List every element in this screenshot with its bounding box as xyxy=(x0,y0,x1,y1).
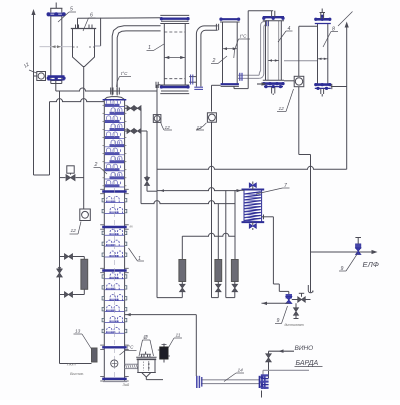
link y10.7 to E4 xyxy=(248,10,273,12)
flange on vapor pipe at line y91 xyxy=(110,88,112,95)
instrument box 12 on riser xyxy=(153,115,161,123)
heat exchanger 1 top header xyxy=(160,14,189,16)
svg-text:Зий: Зий xyxy=(123,382,131,387)
vino line xyxy=(269,350,295,352)
heat exchanger 8 top flange xyxy=(315,18,331,21)
black unit 11 xyxy=(163,344,165,348)
branch down to vessel 6 xyxy=(77,18,79,28)
distillate valve blue xyxy=(286,294,292,299)
separator vessel 6 body xyxy=(73,29,95,67)
vapor line corner x100.6 xyxy=(100,18,102,46)
column section flanges xyxy=(102,190,127,192)
column centerline xyxy=(113,100,115,378)
svg-text:13: 13 xyxy=(75,329,81,335)
control valve with positioner (left) xyxy=(60,177,66,179)
cooling water riser x59.5 xyxy=(59,91,61,364)
left line valve xyxy=(57,269,63,273)
heat exchanger 2 top plate xyxy=(220,18,240,20)
lower small valve xyxy=(295,303,297,307)
pump 12 (below vessel 6) xyxy=(80,209,91,221)
vino valve xyxy=(266,354,272,358)
E8 top stub xyxy=(320,13,322,20)
pump 12 (below exch 2) xyxy=(207,113,216,122)
E2 bottom-left drain xyxy=(212,84,221,86)
svg-text:БАРДА: БАРДА xyxy=(296,360,319,367)
svg-text:t°С: t°С xyxy=(127,345,134,350)
rotameter R2 xyxy=(215,260,222,282)
left rotameter branch bottom xyxy=(83,289,85,294)
column vapor pipe xyxy=(112,26,160,96)
E2 right outlet pipe xyxy=(237,74,259,76)
svg-text:дистиллят: дистиллят xyxy=(285,323,304,327)
wine pipe xyxy=(201,379,260,381)
E1 bottom-right stub xyxy=(189,76,196,78)
arrow into E4 bottom xyxy=(257,83,265,85)
pot vessel 10 xyxy=(136,356,156,358)
line y190 xyxy=(157,188,240,191)
left rotameter branch top xyxy=(60,256,85,258)
E2 bottom-right link xyxy=(233,86,235,88)
distillate right branch xyxy=(292,299,311,301)
wire U-turn bottom xyxy=(34,174,50,176)
pipe E1 to E2 (S-pipe) xyxy=(196,26,217,87)
distillate left arrow line xyxy=(262,302,289,304)
wine feed line from column xyxy=(125,314,197,316)
coil bottom valve xyxy=(252,222,254,225)
svg-text:2: 2 xyxy=(212,58,216,64)
instrument box 12 (left) xyxy=(34,75,38,77)
vapor line to E1 top-left xyxy=(78,17,161,19)
svg-text:ЕЛФ: ЕЛФ xyxy=(363,260,379,269)
condenser E5 centerline xyxy=(40,46,73,48)
line to condenser 5 xyxy=(95,45,101,47)
svg-text:11: 11 xyxy=(176,333,181,339)
heat exchanger 2 body xyxy=(222,22,224,84)
valve V1 on x147 xyxy=(145,178,150,182)
svg-text:12: 12 xyxy=(71,228,77,234)
heat exchanger 1 bottom header xyxy=(160,84,189,86)
coil outlet xyxy=(262,216,266,218)
condenser E5 bottom flange xyxy=(48,75,65,78)
riser x248.2 to E4 top xyxy=(247,11,249,89)
valve row 1 xyxy=(125,107,141,109)
E8 dim arrows xyxy=(318,58,328,60)
E2 dim arrows xyxy=(223,48,238,50)
E8 bottom stub xyxy=(320,89,322,94)
pipe to pot xyxy=(125,363,138,365)
jog to riser xyxy=(147,190,157,192)
heat exchanger 4 top flange xyxy=(263,16,284,18)
condenser E5 body xyxy=(51,16,62,81)
svg-text:Вытяж.: Вытяж. xyxy=(70,372,84,376)
vino-barda flange cluster xyxy=(261,374,269,376)
line y169 xyxy=(157,166,347,169)
pump2 drain x211.5 xyxy=(211,123,213,298)
heat exchanger 1 dim arrows xyxy=(164,57,185,59)
line y236 xyxy=(182,233,235,236)
flange bolts wine pipe xyxy=(261,376,263,378)
condensate line y91 xyxy=(56,88,158,91)
lutter line xyxy=(60,363,92,365)
heat exchanger 8 bottom flange xyxy=(315,83,331,86)
line y204 xyxy=(141,201,235,204)
E2 left inlet flange xyxy=(215,24,217,30)
E1 bottom-left outlet xyxy=(158,84,161,86)
E4 bottom stub xyxy=(271,87,273,94)
sight glass circle xyxy=(111,360,118,367)
svg-text:2: 2 xyxy=(94,162,98,168)
E4 dim arrows xyxy=(268,60,279,62)
svg-text:14: 14 xyxy=(238,368,244,374)
column C2 trays xyxy=(105,104,120,107)
valve row 1 downcomer x141 xyxy=(140,108,142,203)
rotameter R3 xyxy=(231,260,238,282)
wine pipe right flanges xyxy=(258,376,260,388)
bypass drop x225.8 xyxy=(225,190,227,297)
svg-text:t°С: t°С xyxy=(121,71,128,76)
svg-text:12: 12 xyxy=(279,106,285,112)
pipe end hook xyxy=(308,285,313,293)
svg-text:Лют: Лют xyxy=(66,363,76,367)
R2 feed x218.3 xyxy=(217,204,219,260)
gray riser to E4 inlet xyxy=(259,25,265,79)
left rotameter body xyxy=(83,257,85,260)
pump riser to exch 8 xyxy=(298,26,300,76)
heat exchanger 1 body xyxy=(163,24,165,86)
pump drop line xyxy=(298,87,300,155)
svg-text:5: 5 xyxy=(70,7,73,13)
svg-text:вк: вк xyxy=(130,225,134,229)
svg-text:ВИНО: ВИНО xyxy=(295,345,314,352)
coil feed drop x235 xyxy=(234,190,236,259)
column C2 shell xyxy=(103,100,105,382)
svg-text:1: 1 xyxy=(148,45,151,51)
heat exchanger 8 body xyxy=(317,24,319,85)
svg-text:6: 6 xyxy=(90,13,93,19)
heat exchanger 4 body xyxy=(265,21,267,80)
coil top valve xyxy=(252,186,254,190)
riser x157 xyxy=(156,85,158,298)
heat exchanger 1 tube sheets xyxy=(164,31,185,33)
rotameter R1 xyxy=(181,236,183,259)
distillate feed jog xyxy=(279,290,289,292)
heat exchanger 4 bottom flange xyxy=(263,79,284,81)
level instrument 13 xyxy=(92,348,98,362)
valve row 2 xyxy=(125,130,147,132)
svg-text:9: 9 xyxy=(277,318,280,324)
wire riser to reflux line xyxy=(49,102,51,175)
wire vent line with up arrow xyxy=(33,11,35,175)
barda line xyxy=(263,369,309,371)
wine pipe left flanges xyxy=(196,376,198,388)
condenser E5 bottom outlet xyxy=(55,81,57,92)
coil heat exchanger 7 xyxy=(244,190,262,223)
E8 bottom outlet xyxy=(331,86,334,88)
column bottom line xyxy=(103,380,127,382)
heat exchanger 2 bottom plate xyxy=(221,83,239,85)
reflux line y101.6 xyxy=(50,99,105,102)
drop line x310.5 xyxy=(310,155,312,293)
valve row 2 downcomer x147 xyxy=(146,131,148,177)
E4 top stub xyxy=(271,11,273,17)
riser x346.7 with arrow xyxy=(346,24,348,87)
pump 12 (right) xyxy=(284,80,294,82)
condenser E5 top flange xyxy=(48,12,65,14)
condenser E5 top box xyxy=(50,7,62,9)
elf line xyxy=(311,251,376,253)
vessel 6 drain line xyxy=(83,67,85,210)
svg-text:t°С: t°С xyxy=(240,34,247,39)
line to exch 8 inlet xyxy=(284,60,318,62)
elf valve xyxy=(356,244,361,249)
column C2 top cap xyxy=(104,97,124,100)
coil inlet xyxy=(240,189,245,191)
